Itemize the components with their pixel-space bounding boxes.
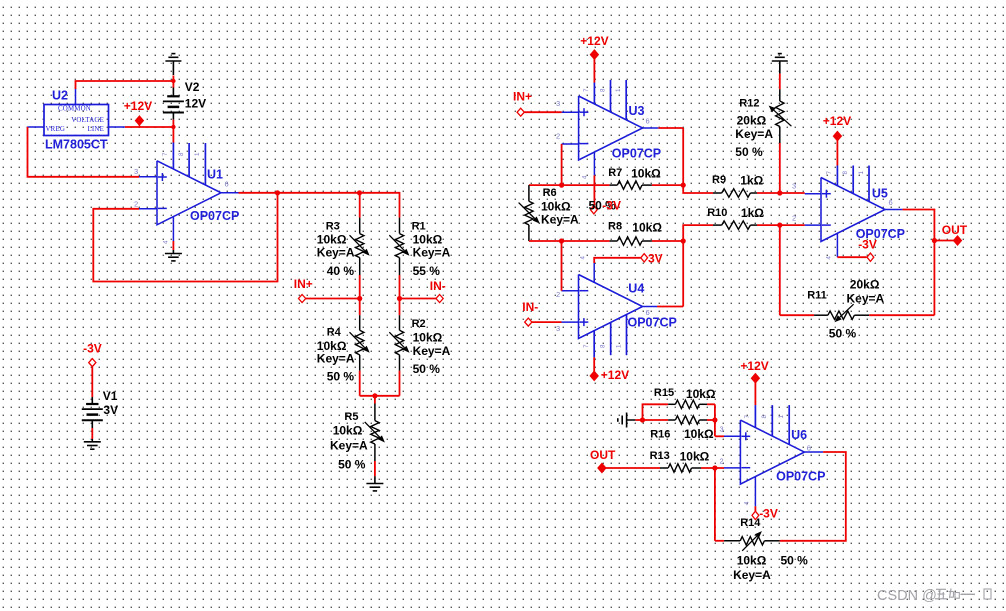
- svg-text:R5: R5: [344, 411, 358, 423]
- svg-text:4: 4: [581, 175, 588, 179]
- svg-text:2: 2: [720, 457, 724, 466]
- svg-text:IN+: IN+: [513, 89, 532, 103]
- svg-text:7: 7: [826, 171, 833, 175]
- svg-text:10kΩ: 10kΩ: [686, 387, 716, 401]
- svg-text:Key=A: Key=A: [317, 351, 355, 365]
- svg-text:1kΩ: 1kΩ: [740, 173, 763, 187]
- svg-text:IN-: IN-: [522, 300, 538, 314]
- svg-text:OUT: OUT: [590, 448, 616, 462]
- svg-text:Key=A: Key=A: [330, 439, 368, 453]
- svg-text:V2: V2: [185, 80, 200, 94]
- svg-text:Key=A: Key=A: [735, 127, 773, 141]
- svg-text:3: 3: [556, 324, 560, 333]
- svg-text:6: 6: [225, 180, 229, 189]
- svg-text:8: 8: [761, 415, 768, 419]
- svg-text:1: 1: [858, 171, 865, 175]
- svg-text:8: 8: [599, 88, 606, 92]
- svg-text:R11: R11: [807, 290, 827, 302]
- svg-text:U1: U1: [207, 168, 223, 182]
- svg-text:COMMON: COMMON: [58, 106, 91, 113]
- svg-text:U2: U2: [52, 89, 68, 103]
- svg-text:R2: R2: [412, 318, 426, 330]
- svg-text:40 %: 40 %: [327, 264, 355, 278]
- svg-text:-3V: -3V: [83, 341, 102, 355]
- svg-text:R16: R16: [650, 428, 670, 440]
- svg-text:7: 7: [583, 88, 590, 92]
- svg-text:-3V: -3V: [759, 507, 778, 521]
- svg-text:2: 2: [556, 132, 560, 141]
- svg-text:10kΩ: 10kΩ: [541, 200, 571, 214]
- svg-text:OP07CP: OP07CP: [612, 147, 661, 161]
- svg-text:1: 1: [194, 152, 201, 156]
- svg-text:10kΩ: 10kΩ: [317, 232, 347, 246]
- svg-text:+12V: +12V: [601, 368, 629, 382]
- svg-text:1: 1: [778, 415, 785, 419]
- svg-text:12V: 12V: [185, 97, 206, 111]
- svg-text:2: 2: [556, 290, 560, 299]
- svg-text:10kΩ: 10kΩ: [413, 232, 443, 246]
- svg-text:Key=A: Key=A: [413, 344, 451, 358]
- svg-text:8: 8: [600, 344, 607, 348]
- svg-text:LM7805CT: LM7805CT: [45, 138, 108, 152]
- svg-text:-3V: -3V: [602, 198, 621, 212]
- svg-text:OP07CP: OP07CP: [776, 470, 825, 484]
- svg-text:OP07CP: OP07CP: [190, 209, 239, 223]
- svg-text:3V: 3V: [103, 403, 118, 417]
- svg-text:R14: R14: [740, 517, 761, 529]
- svg-text:3V: 3V: [648, 251, 663, 265]
- svg-text:R10: R10: [707, 207, 727, 219]
- svg-text:OP07CP: OP07CP: [628, 316, 677, 330]
- svg-text:Key=A: Key=A: [413, 246, 451, 260]
- svg-text:4: 4: [580, 256, 587, 260]
- svg-text:IN-: IN-: [430, 279, 446, 293]
- svg-text:50 %: 50 %: [413, 362, 441, 376]
- svg-text:-3V: -3V: [858, 238, 877, 252]
- svg-text:10kΩ: 10kΩ: [413, 331, 443, 345]
- svg-text:6: 6: [807, 444, 811, 453]
- svg-text:10kΩ: 10kΩ: [680, 449, 710, 463]
- svg-text:CSDN @: CSDN @: [877, 588, 937, 604]
- svg-text:1: 1: [615, 344, 622, 348]
- svg-text:20kΩ: 20kΩ: [850, 278, 880, 292]
- svg-text:50 %: 50 %: [327, 370, 355, 384]
- svg-text:50 %: 50 %: [338, 457, 366, 471]
- svg-text:6: 6: [646, 117, 650, 126]
- svg-text:Key=A: Key=A: [733, 568, 771, 582]
- svg-text:VREG: VREG: [46, 126, 66, 133]
- svg-text:2: 2: [134, 199, 138, 208]
- svg-text:R4: R4: [327, 326, 342, 338]
- svg-text:+12V: +12V: [740, 359, 768, 373]
- svg-text:+12V: +12V: [580, 34, 608, 48]
- svg-text:10kΩ: 10kΩ: [737, 554, 767, 568]
- svg-text:R7: R7: [608, 167, 622, 179]
- svg-text:R8: R8: [608, 221, 622, 233]
- svg-text:55 %: 55 %: [413, 264, 441, 278]
- svg-text:+12V: +12V: [124, 99, 152, 113]
- svg-text:R15: R15: [654, 387, 674, 399]
- svg-text:4: 4: [826, 256, 833, 260]
- svg-text:1: 1: [615, 88, 622, 92]
- svg-text:U3: U3: [629, 104, 645, 118]
- svg-text:+12V: +12V: [823, 114, 851, 128]
- svg-text:7: 7: [583, 344, 590, 348]
- svg-text:U4: U4: [628, 282, 644, 296]
- svg-text:LINE: LINE: [88, 126, 105, 133]
- svg-text:R9: R9: [712, 174, 726, 186]
- svg-text:1kΩ: 1kΩ: [741, 206, 764, 220]
- svg-text:Key=A: Key=A: [847, 292, 885, 306]
- svg-text:8: 8: [842, 171, 849, 175]
- svg-text:R12: R12: [739, 98, 759, 110]
- svg-text:20kΩ: 20kΩ: [737, 114, 767, 128]
- svg-text:4: 4: [163, 240, 170, 244]
- svg-text:10kΩ: 10kΩ: [631, 167, 661, 181]
- svg-text:3: 3: [792, 182, 796, 191]
- svg-text:7: 7: [162, 152, 169, 156]
- svg-text:8: 8: [178, 152, 185, 156]
- svg-text:10kΩ: 10kΩ: [684, 427, 714, 441]
- svg-text:4: 4: [743, 501, 750, 505]
- svg-text:50 %: 50 %: [735, 145, 763, 159]
- svg-text:50 %: 50 %: [781, 554, 809, 568]
- svg-text:50 %: 50 %: [829, 327, 857, 341]
- svg-text:2: 2: [792, 213, 796, 222]
- svg-text:6: 6: [646, 308, 650, 317]
- svg-text:U6: U6: [791, 428, 807, 442]
- svg-text:OUT: OUT: [942, 223, 968, 237]
- svg-text:R13: R13: [650, 450, 670, 462]
- svg-text:7: 7: [744, 415, 751, 419]
- svg-text:3: 3: [134, 167, 138, 176]
- svg-text:R1: R1: [412, 221, 426, 233]
- svg-text:U5: U5: [872, 187, 888, 201]
- svg-text:Key=A: Key=A: [541, 213, 579, 227]
- svg-text:3: 3: [556, 99, 560, 108]
- svg-text:V1: V1: [103, 389, 118, 403]
- svg-text:6: 6: [889, 198, 893, 207]
- svg-text:R6: R6: [543, 187, 557, 199]
- svg-text:R3: R3: [326, 221, 340, 233]
- svg-text:10kΩ: 10kΩ: [632, 220, 662, 234]
- svg-text:VOLTAGE: VOLTAGE: [71, 117, 104, 124]
- svg-text:10kΩ: 10kΩ: [333, 423, 363, 437]
- svg-text:IN+: IN+: [294, 277, 313, 291]
- svg-text:3: 3: [720, 425, 724, 434]
- svg-text:Key=A: Key=A: [317, 246, 355, 260]
